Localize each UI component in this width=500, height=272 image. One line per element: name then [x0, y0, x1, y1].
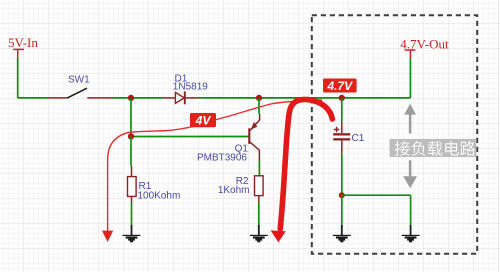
- wire rail left: [18, 97, 48, 99]
- gray label 接负载电路: [390, 139, 477, 157]
- wire Q1 collector to R2: [258, 161, 260, 176]
- svg-text:4.7V: 4.7V: [326, 79, 353, 93]
- wire R2 to ground: [258, 203, 260, 228]
- ground R1: [123, 225, 141, 242]
- port 5V-In terminal: [13, 49, 24, 58]
- junction node3: [339, 95, 345, 101]
- junction node1: [128, 95, 134, 101]
- wire right branch down: [410, 195, 412, 227]
- ground C1: [333, 225, 351, 242]
- wire ground node down: [341, 195, 343, 227]
- svg-text:PMBT3906: PMBT3906: [197, 152, 247, 163]
- switch SW1 blade: [67, 88, 87, 98]
- gray down arrow: [403, 160, 417, 188]
- diode D1 anode lead: [163, 97, 175, 99]
- switch SW1 right lead: [87, 97, 112, 99]
- dashed load box: [312, 15, 477, 254]
- ground R2: [250, 225, 268, 242]
- port 4.7V-Out terminal: [405, 50, 416, 58]
- wire 5V-In vertical: [17, 58, 19, 98]
- svg-text:1Kohm: 1Kohm: [218, 185, 250, 196]
- resistor R2: [255, 176, 264, 203]
- annotation thick red arrow: [271, 99, 333, 242]
- diode D1: [175, 91, 198, 104]
- svg-text:1N5819: 1N5819: [173, 82, 208, 93]
- port 5V-In label: [8, 35, 38, 50]
- annotation thin red arrow: [102, 100, 322, 242]
- svg-text:C1: C1: [352, 133, 365, 144]
- junction ground node: [339, 192, 345, 198]
- callout box 4.7V: [323, 79, 357, 93]
- wire C1 to ground node: [341, 154, 343, 196]
- wire base horizontal: [131, 136, 249, 138]
- svg-text:5V-In: 5V-In: [8, 35, 38, 50]
- switch SW1 left lead: [48, 97, 67, 99]
- wire diode to node2: [198, 97, 259, 99]
- gray up arrow: [404, 104, 416, 134]
- ground right: [402, 225, 420, 242]
- wire R1 to ground: [131, 203, 133, 227]
- svg-text:4V: 4V: [195, 113, 212, 127]
- wire switch to node: [113, 97, 132, 99]
- wire ground node right: [342, 194, 411, 196]
- svg-text:4.7V-Out: 4.7V-Out: [400, 37, 449, 52]
- wire output vertical: [409, 58, 411, 98]
- svg-text:100Kohm: 100Kohm: [138, 190, 181, 201]
- wire node1 to R1: [130, 137, 132, 167]
- wire node1 down: [130, 98, 132, 137]
- wire node to diode: [131, 97, 163, 99]
- resistor R1: [128, 166, 137, 203]
- svg-text:SW1: SW1: [68, 75, 90, 86]
- transistor Q1: [249, 114, 259, 162]
- wire node2 to node3: [259, 97, 342, 99]
- capacitor C1: [333, 121, 350, 154]
- junction base node: [128, 133, 134, 139]
- junction node2: [256, 95, 262, 101]
- wire node3 down to C1: [341, 98, 343, 121]
- wire node3 to output corner: [342, 97, 411, 99]
- callout box 4V: [190, 113, 216, 127]
- wire node2 down to Q1 emitter: [258, 98, 260, 114]
